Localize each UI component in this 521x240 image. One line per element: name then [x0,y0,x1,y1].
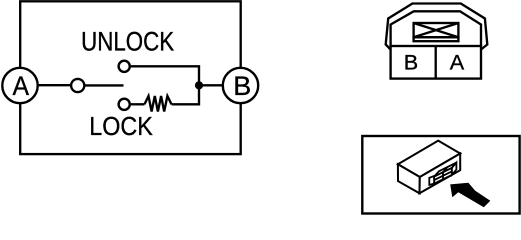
inset frame [362,136,519,214]
svg-text:B: B [404,49,418,74]
lock contact [119,99,130,110]
wire A to pole [20,84,78,86]
wire lock branch [131,103,145,105]
circuit box outline [20,1,241,154]
connector key box X [414,23,459,37]
connector housing outer outline [386,4,488,50]
svg-text:A: A [12,71,29,101]
terminal cells box [391,46,481,79]
terminal A [2,68,37,103]
connector housing inner outline [391,11,481,46]
socket front face [434,168,452,184]
unlock contact [119,61,130,72]
socket tab [429,176,434,185]
terminal B [223,68,258,103]
socket top divider [443,167,448,172]
socket front dividers [434,171,452,180]
svg-text:A: A [450,49,465,74]
relay box left face [398,164,420,193]
connector key box [414,23,459,37]
relay box right face [420,154,461,194]
arrow [450,183,490,208]
switch pole contact [71,79,84,92]
socket right face [452,163,457,175]
svg-text:LOCK: LOCK [89,111,153,141]
socket top face [434,163,456,177]
svg-text:UNLOCK: UNLOCK [81,26,174,56]
wire junction to B [199,84,240,86]
junction node [195,81,203,89]
svg-text:B: B [233,71,251,101]
connector key box base strip [414,37,459,41]
relay box top face [398,141,460,177]
resistor R (lock) [145,96,172,112]
wire unlock branch [131,66,199,104]
wire switch blade [85,84,124,86]
terminal cells divider [435,46,437,79]
